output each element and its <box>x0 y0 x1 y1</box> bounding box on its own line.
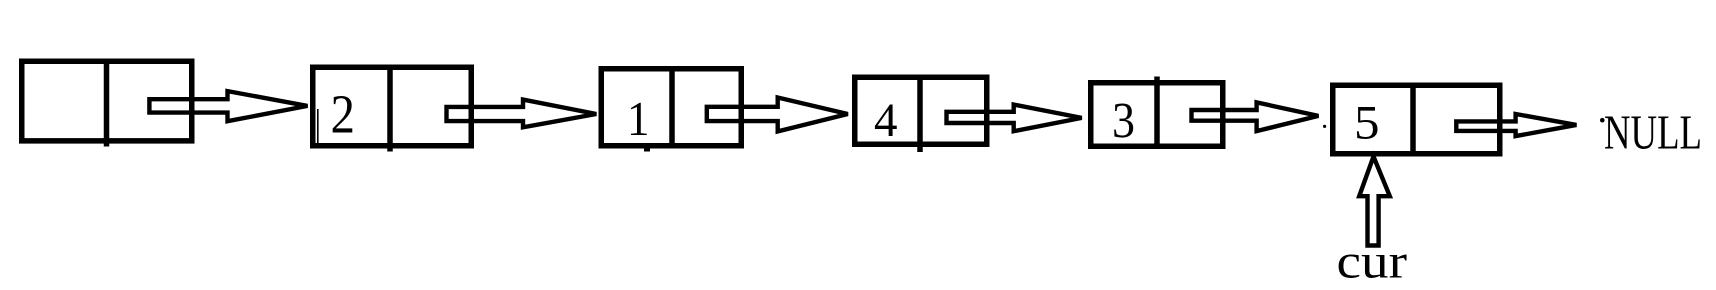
arrow 5->NULL <box>1456 114 1576 136</box>
node 5 box <box>1333 85 1500 154</box>
arrow 3->5 <box>1192 102 1319 131</box>
svg-text:2: 2 <box>331 84 356 145</box>
cur up-arrow <box>1359 157 1390 246</box>
svg-text:5: 5 <box>1354 98 1380 150</box>
node 3 box <box>1091 77 1223 148</box>
node 2 box <box>313 67 472 152</box>
node 1 box <box>601 69 741 147</box>
node 4 box <box>855 77 987 152</box>
svg-text:1: 1 <box>627 91 650 146</box>
svg-text:cur: cur <box>1337 236 1408 289</box>
arrow head->2 <box>149 91 307 121</box>
arrow 1->4 <box>707 98 848 132</box>
arrow 2->1 <box>447 100 597 128</box>
svg-text:4: 4 <box>874 95 898 147</box>
dot before NULL <box>1600 118 1605 123</box>
arrow 4->3 <box>947 105 1082 132</box>
stray dot left of node 5 <box>1323 125 1326 128</box>
svg-text:3: 3 <box>1112 94 1135 150</box>
small mark below node 1 <box>644 146 650 152</box>
svg-text:NULL: NULL <box>1604 105 1702 160</box>
head node box <box>22 61 192 147</box>
